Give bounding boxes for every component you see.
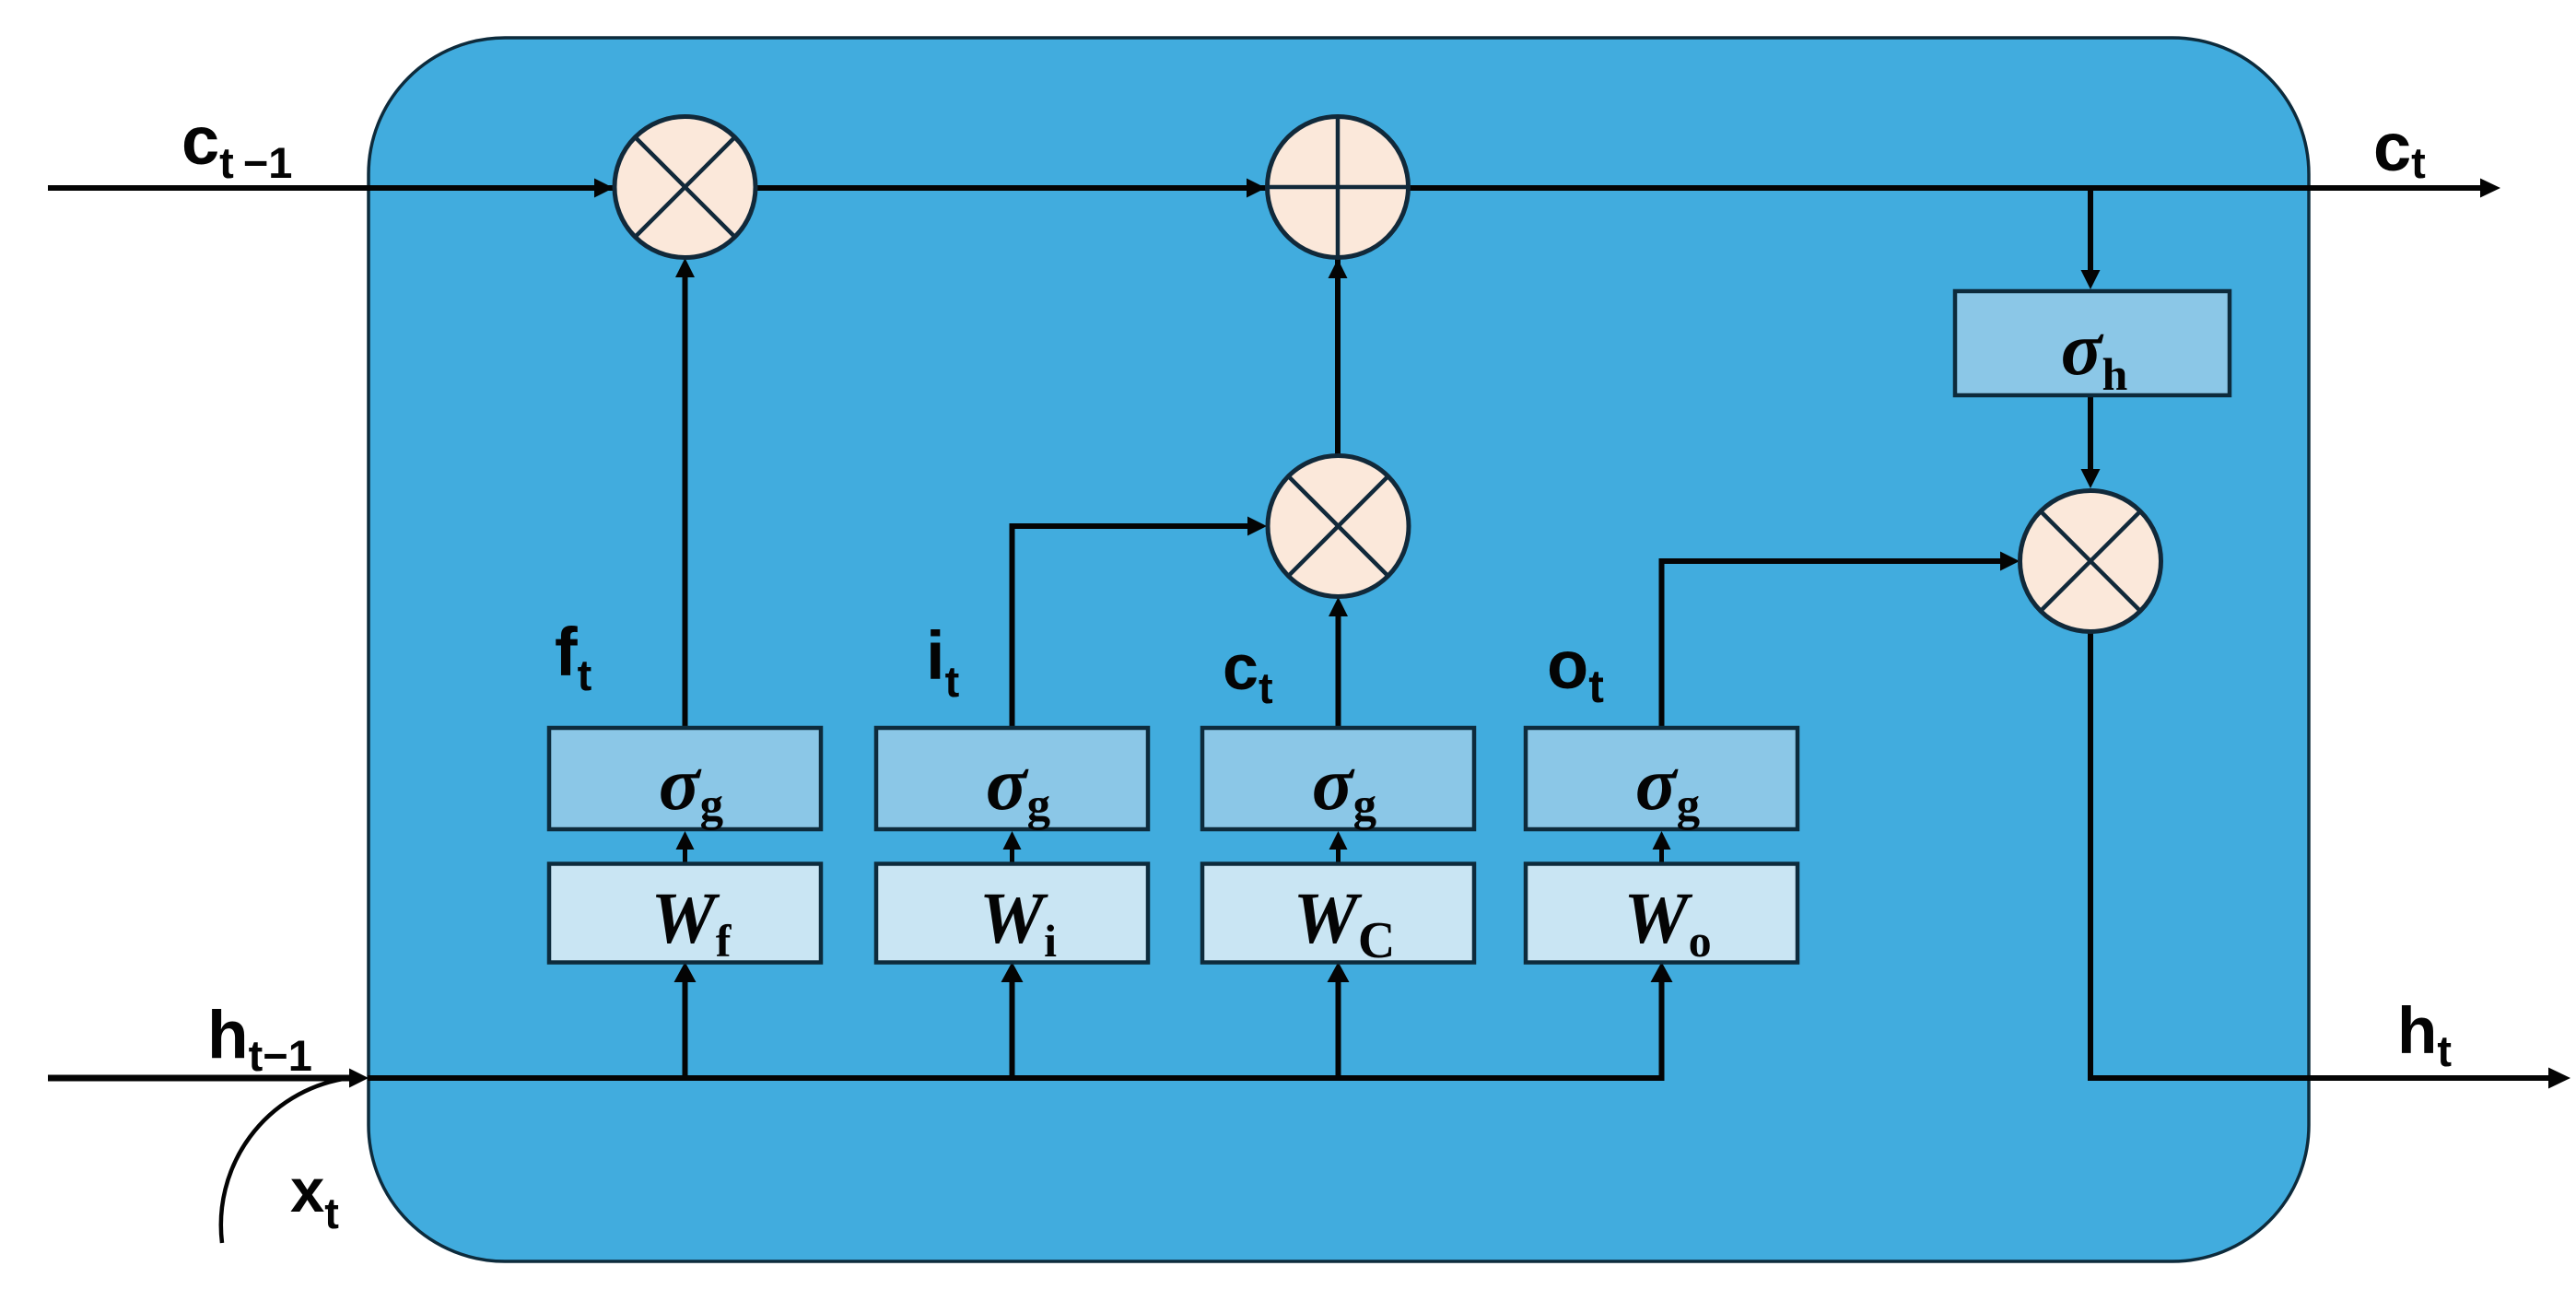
- box W_f: [549, 864, 821, 963]
- node: arrowhead into multiply gate 1: [594, 179, 614, 198]
- svg-text:ht−1: ht−1: [207, 998, 312, 1080]
- svg-text:ct−1: ct−1: [181, 102, 292, 187]
- box W_o: [1526, 864, 1797, 963]
- wire: candidate riser from sigma_g3 to multiply gate 2: [1336, 608, 1341, 728]
- wire: h line (bottom, outside left, thick): [48, 1075, 356, 1082]
- wire: W_f to sigma_g1 arrow: [683, 844, 687, 864]
- wire: sigma_h down to multiply gate 3: [2088, 395, 2093, 477]
- box W_C: [1202, 864, 1474, 963]
- node: arrowhead h_{t-1} into cell: [349, 1069, 369, 1088]
- svg-text:xt: xt: [290, 1156, 339, 1237]
- node: arrowhead c_t output: [2480, 179, 2500, 198]
- LSTM cell body: [369, 38, 2309, 1261]
- box sigma_g1: [549, 728, 821, 829]
- wire: i_t path from sigma_g2 to multiply gate 2: [1013, 526, 1256, 728]
- multiply gate 2 (candidate x input): [1268, 456, 1409, 597]
- wire: multiply gate 3 down and out as h_t: [2090, 630, 2548, 1078]
- box W_i: [876, 864, 1148, 963]
- wire: W_o to sigma_g4 arrow: [1659, 844, 1664, 864]
- box sigma_g4: [1526, 728, 1797, 829]
- node: arrowhead into add gate: [1247, 179, 1266, 198]
- box sigma_g3: [1202, 728, 1474, 829]
- svg-text:ht: ht: [2397, 995, 2452, 1075]
- wire: W_i to sigma_g2 arrow: [1010, 844, 1014, 864]
- multiply gate 1 (forget): [615, 117, 755, 258]
- wire: cell-state line c (top): [48, 185, 2485, 191]
- wire: riser from h line to W_i: [1010, 973, 1015, 1078]
- wire: riser from h line to W_C: [1336, 973, 1341, 1078]
- box sigma_h: [1955, 291, 2230, 395]
- wire: x_t input curve: [221, 1079, 343, 1243]
- svg-text:ct: ct: [2373, 109, 2426, 187]
- multiply gate 3 (output): [2020, 491, 2161, 632]
- box sigma_g2: [876, 728, 1148, 829]
- wire: c branch down to sigma_h: [2088, 190, 2093, 278]
- wire: from add gate down to multiply gate 2: [1335, 258, 1341, 456]
- wire: f_t riser from sigma_g1 to multiply gate 1: [683, 269, 688, 728]
- wire: W_C to sigma_g3 arrow: [1336, 844, 1341, 864]
- wire: o_t path from sigma_g4 to multiply gate 3: [1662, 561, 2008, 728]
- node: arrowhead into W_o bottom: [1651, 962, 1673, 982]
- wire: h line inside cell, turning up into W_o: [368, 973, 1662, 1078]
- add gate: [1268, 117, 1409, 258]
- wire: riser from h line to W_f: [683, 973, 688, 1078]
